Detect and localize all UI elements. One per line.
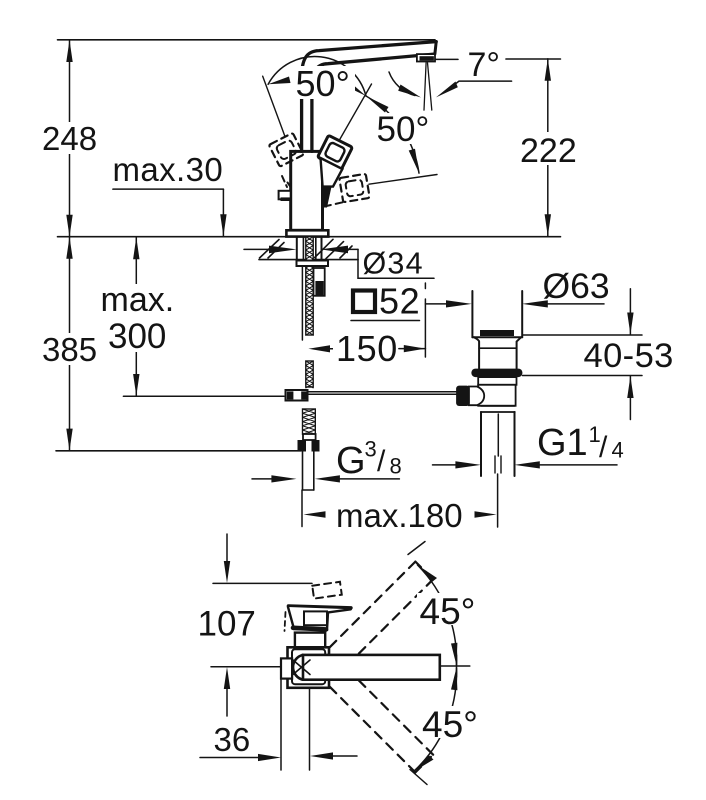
svg-text:52: 52 [379, 281, 420, 322]
riser / spout top edge [302, 42, 437, 152]
handle axis extension line (up position) [338, 84, 372, 143]
deck / counter line [58, 236, 561, 238]
max.300 bottom reference line [123, 395, 284, 397]
Ø63 dimension [425, 303, 450, 305]
deck slab hatching right [315, 239, 333, 257]
cartridge housing (top view) [295, 633, 325, 648]
svg-text:G: G [336, 440, 366, 482]
horizontal pop-up rod [308, 391, 458, 393]
label 150 [333, 335, 397, 363]
label 45° (lower) [419, 706, 480, 738]
square52 underline [351, 320, 420, 322]
mounting nut below deck [297, 261, 329, 267]
leader to 7 degree text [452, 81, 512, 86]
svg-text:45°: 45° [420, 591, 476, 632]
svg-text:/: / [377, 445, 386, 478]
handle axis line (down position) [369, 175, 437, 185]
svg-text:50°: 50° [377, 110, 430, 149]
107 top extension line [213, 582, 312, 584]
dashed spout position (45° down) [319, 676, 416, 773]
svg-text:150: 150 [336, 328, 398, 369]
7 degree label line [434, 58, 458, 60]
flange lower ring [478, 377, 516, 385]
36 right extension line (centerline) [309, 688, 311, 770]
svg-text:50°: 50° [296, 63, 350, 104]
pop-up rod holder block [314, 268, 325, 296]
top reference line (248 max height) [58, 39, 436, 41]
36 left extension line [280, 679, 282, 770]
svg-text:max.: max. [101, 281, 175, 319]
spout angle arc (near tip) [389, 72, 415, 96]
45° arc extension line (upper) [408, 542, 425, 555]
svg-text:G1: G1 [537, 422, 588, 464]
svg-text:40-53: 40-53 [584, 337, 674, 375]
40-53 bottom reference line [523, 375, 643, 377]
36 dimension [200, 757, 260, 759]
150 extension line [424, 283, 426, 289]
braided hose column (upper) [306, 237, 313, 335]
body square (top view) [288, 647, 330, 688]
dashed spout position (45° up) [319, 562, 416, 659]
dashed handle (left position) [269, 133, 304, 167]
45° arc extension line (lower) [410, 770, 427, 785]
svg-text:max.30: max.30 [113, 151, 224, 188]
40-53 top reference line [522, 334, 642, 336]
svg-text:/: / [599, 431, 608, 464]
handle top view [288, 606, 351, 608]
svg-text:36: 36 [214, 721, 251, 758]
solid handle (tilted) [318, 135, 353, 169]
deck slab hatching left [260, 240, 280, 259]
centerline short segment at arc [441, 665, 470, 667]
drain side knob [456, 386, 470, 406]
hose nut [303, 434, 316, 440]
max.30 leader [113, 188, 223, 190]
base plate [286, 230, 328, 236]
aerator [417, 54, 435, 61]
label 40-53 [580, 339, 676, 370]
drain valve cap sides [471, 291, 473, 337]
handle axis extension line (left position) [263, 76, 285, 136]
spout (top view) [293, 655, 303, 680]
label 50° (lower) [374, 113, 433, 144]
svg-text:7°: 7° [468, 46, 501, 84]
riser right / spout bottom edge [312, 54, 434, 151]
drain valve body [478, 385, 515, 406]
label 45° (upper) [417, 593, 478, 625]
G 3/8 dimension [252, 478, 274, 480]
svg-text:8: 8 [390, 454, 402, 479]
40-53 dimension line [629, 289, 631, 335]
45° arc upper [418, 565, 457, 665]
hole dimension arrows at deck (Ø34 leader) [244, 248, 270, 250]
handle swing arc 1 (50°) [268, 56, 366, 96]
drain tailpipe [480, 412, 482, 476]
handle swing arc 2 (50°) [366, 96, 419, 173]
svg-text:4: 4 [612, 438, 624, 463]
drain cap bottom edge [472, 336, 522, 338]
threaded hose section [303, 409, 316, 434]
side block [281, 658, 292, 678]
left tab on body [279, 191, 291, 200]
spout centerline extension (left) [211, 666, 280, 668]
svg-text:max.180: max.180 [336, 497, 463, 534]
under-deck: hole edges [296, 237, 298, 260]
label 385 [39, 333, 99, 365]
G1 1/4 dimension [433, 464, 459, 466]
label 248 [39, 122, 99, 154]
drain flange seal [471, 369, 522, 378]
label 222 [517, 132, 579, 165]
svg-text:385: 385 [42, 331, 97, 368]
pop-up rod tee clamp [286, 390, 308, 401]
drain side port [469, 387, 484, 406]
faucet body [291, 151, 323, 230]
svg-text:222: 222 [520, 132, 577, 170]
svg-text:45°: 45° [422, 704, 478, 745]
label 7° [464, 49, 504, 79]
max.180 dimension [301, 490, 303, 527]
shank tube lines [302, 237, 304, 260]
107 dimension lower arrow [224, 667, 230, 689]
left tube line below nut [301, 266, 303, 340]
dashed handle (down position) [339, 174, 369, 202]
dimension line 248/385 [69, 40, 71, 237]
222 dimension line [547, 59, 549, 237]
Ø34 underline [358, 277, 434, 279]
deck slab bottom line [259, 259, 358, 261]
spout end cap [435, 42, 436, 54]
385 bottom reference line [56, 450, 301, 452]
svg-text:Ø63: Ø63 [543, 266, 610, 306]
label square 52 [353, 291, 375, 313]
45° arc lower [413, 668, 456, 772]
dashed left edge of handle [285, 612, 286, 631]
7 degree reference V lines [424, 63, 426, 111]
X cross at spout pivot [293, 660, 310, 675]
hose end tube [302, 452, 304, 491]
label max. 300 [99, 284, 177, 352]
label 50° (upper) [293, 66, 355, 99]
107 dimension upper arrow [226, 534, 228, 562]
braided hose column (middle) [306, 361, 313, 388]
svg-text:248: 248 [42, 120, 97, 157]
handle top view: dashed hidden square [312, 582, 342, 599]
svg-text:107: 107 [198, 605, 256, 644]
handle blade [321, 158, 343, 187]
label max.180 [333, 500, 464, 530]
max.300 dimension line [135, 237, 137, 396]
svg-text:Ø34: Ø34 [363, 247, 424, 281]
svg-text:3: 3 [365, 437, 377, 462]
bowtie arrows on handle axis [344, 80, 367, 97]
drain neck [474, 337, 479, 368]
150 dimension [328, 348, 336, 350]
drain cap knurled band [480, 330, 514, 336]
svg-text:300: 300 [108, 317, 166, 356]
